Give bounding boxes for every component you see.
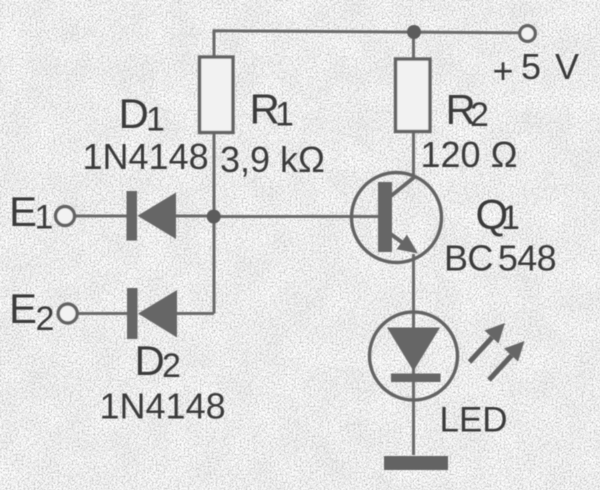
svg-text:1N4148: 1N4148 <box>100 386 226 427</box>
svg-text:E: E <box>9 188 37 235</box>
svg-text:120 Ω: 120 Ω <box>421 134 518 175</box>
svg-text:1N4148: 1N4148 <box>83 136 209 177</box>
svg-text:2: 2 <box>36 300 55 338</box>
svg-text:1: 1 <box>35 199 54 237</box>
svg-text:1: 1 <box>501 199 520 237</box>
svg-text:LED: LED <box>440 401 508 440</box>
svg-text:3,9 kΩ: 3,9 kΩ <box>220 139 325 180</box>
svg-text:1: 1 <box>146 101 165 139</box>
svg-text:2: 2 <box>470 96 489 134</box>
svg-text:1: 1 <box>275 96 294 134</box>
svg-text:E: E <box>9 285 37 332</box>
svg-text:D: D <box>119 90 149 137</box>
svg-text:D: D <box>135 337 165 384</box>
svg-text:BC548: BC548 <box>444 238 556 279</box>
svg-text:2: 2 <box>162 347 181 385</box>
svg-text:+: + <box>493 50 514 91</box>
